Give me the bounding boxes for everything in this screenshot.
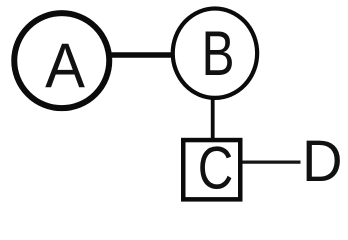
svg-text:C: C: [198, 134, 234, 202]
svg-text:B: B: [201, 18, 234, 89]
wire B-C: [211, 96, 215, 140]
svg-text:D: D: [302, 129, 343, 194]
node C: [183, 134, 240, 202]
node B: [173, 9, 257, 98]
node A: [14, 13, 109, 108]
wire A-B: [106, 52, 178, 57]
svg-text:A: A: [45, 31, 85, 102]
wire C-D: [241, 160, 301, 163]
